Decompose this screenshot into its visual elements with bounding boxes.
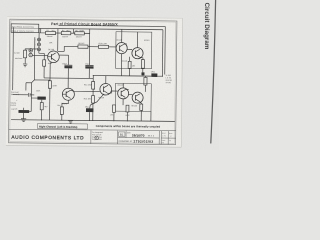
junction blob	[141, 72, 144, 75]
transistor TR7	[132, 92, 143, 103]
wire vertical bus	[31, 37, 35, 95]
capacitor C5	[85, 65, 93, 69]
wire blob to output	[142, 74, 144, 77]
resistor R24	[126, 105, 129, 112]
wire R24	[126, 112, 128, 121]
transistor TR3	[100, 83, 112, 95]
wire R12-R14 node	[92, 76, 94, 96]
resistor R4	[40, 103, 43, 110]
potentiometer VR2	[18, 110, 29, 113]
wire to speaker	[157, 75, 162, 77]
paper sheet	[6, 16, 183, 147]
resistor R1	[45, 31, 55, 34]
wire base feed to TR1	[32, 54, 47, 56]
wire TR7 emitter	[140, 102, 142, 104]
sheet border frame	[9, 19, 177, 144]
node terminal SK2	[29, 53, 33, 57]
junction	[89, 46, 90, 47]
wire R16 to rail	[61, 114, 63, 120]
wire box2 to rail	[122, 99, 124, 105]
wire pot to ground	[23, 113, 25, 119]
wire R18	[128, 57, 130, 76]
wire	[43, 66, 45, 78]
capacitor C4	[64, 65, 72, 69]
input legend box	[11, 24, 39, 33]
wire TR2 emitter	[62, 100, 68, 107]
wire rail drop to mid node	[89, 29, 91, 47]
resistor R6 emitter	[48, 81, 51, 89]
wire rail to output node	[161, 30, 163, 76]
junction	[93, 91, 94, 92]
wire TR2 to TR3	[71, 90, 100, 92]
wire TR1 emitter	[34, 62, 51, 81]
resistor R18	[128, 61, 131, 68]
issue cell B1	[118, 132, 125, 137]
transistor TR6	[118, 88, 129, 99]
caption: Circuit Diagram (vertical, right margin)	[203, 3, 210, 50]
wire TR6-TR7	[125, 89, 132, 94]
resistor R16	[60, 107, 63, 115]
transistor TR4	[116, 42, 127, 53]
resistor VR1	[24, 50, 27, 58]
wire R14 to rail	[92, 103, 94, 120]
wire R22	[113, 112, 115, 120]
wire R20	[139, 57, 142, 72]
wire R4 to rail	[41, 110, 43, 120]
resistor R12	[92, 81, 95, 89]
ground	[68, 121, 73, 124]
wire input jog	[26, 83, 32, 91]
mid wire node	[64, 45, 116, 48]
supply rail +V	[39, 28, 163, 29]
resistor R22	[112, 105, 115, 112]
output wire	[93, 75, 151, 78]
ground	[23, 58, 27, 67]
junctions on rail	[41, 119, 42, 120]
resistor R9	[78, 45, 88, 48]
transistor TR1	[48, 51, 60, 63]
wire TR5 collector	[137, 32, 139, 48]
resistor R14	[91, 96, 94, 103]
wire top tie	[25, 49, 35, 51]
wire C5 down	[88, 69, 90, 79]
wire R26 to rail	[140, 110, 142, 121]
wire bias node	[44, 77, 93, 80]
wire TR4 collector	[121, 29, 123, 42]
wire resistor chain	[39, 28, 90, 33]
note box right channel	[37, 123, 87, 129]
input feed wire	[12, 27, 15, 90]
node pads column	[37, 33, 44, 60]
0V rail	[11, 120, 175, 122]
capacitor C2	[31, 95, 37, 98]
resistor 0R22b	[144, 77, 147, 85]
wire speaker return line	[58, 25, 165, 74]
wire box2 right leg	[150, 112, 152, 122]
wire TR3 emitter to TR4 base	[108, 91, 118, 94]
title block	[9, 129, 176, 145]
transistor TR2	[62, 88, 74, 100]
resistor R5	[75, 32, 85, 35]
wire tick	[72, 29, 74, 33]
resistor R10	[98, 45, 108, 48]
resistor R7	[43, 60, 46, 66]
wire C2 to R4	[41, 100, 43, 103]
wire 0R22b	[144, 76, 146, 92]
wire emitter to C4	[59, 55, 68, 65]
heatsink box 2	[115, 83, 151, 111]
resistor 0R22	[151, 73, 157, 77]
heatsink box 1	[116, 32, 152, 69]
wire tie	[35, 48, 37, 50]
wire tick	[40, 28, 42, 32]
node terminal SK1	[29, 49, 33, 53]
resistor R20	[141, 60, 144, 69]
page edge line	[211, 0, 216, 143]
wire TR4 to TR5	[124, 44, 132, 50]
transistor TR5	[132, 48, 143, 59]
wire TR6 collector	[122, 83, 124, 87]
wire C4 down to TR2 collector	[67, 68, 69, 88]
wire TR4 emitter down	[120, 54, 122, 76]
resistor R3	[61, 32, 71, 35]
resistor R26	[140, 104, 143, 110]
wire TR1 collector to rail	[57, 29, 59, 52]
capacitor C7	[86, 108, 93, 112]
scan grain overlay	[6, 16, 183, 147]
wire C7	[90, 94, 104, 121]
ground	[21, 119, 26, 122]
wire TR3 collector up to output	[105, 76, 107, 84]
wire TR2 base	[62, 93, 66, 95]
capacitor C1	[13, 94, 35, 96]
wire collector link	[58, 46, 65, 51]
wire R6 to rail	[49, 88, 51, 120]
wire drop to C5	[88, 47, 90, 65]
